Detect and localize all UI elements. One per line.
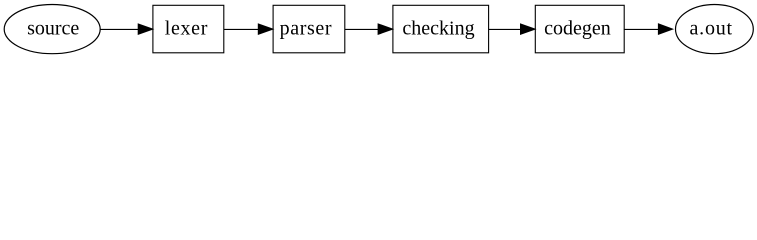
wire codegen->a.out: [624, 28, 659, 30]
svg-text:codegen: codegen: [544, 17, 611, 39]
node checking (box): [393, 5, 489, 53]
wire lexer->parser: [224, 28, 259, 30]
node a.out (ellipse): [676, 5, 754, 54]
node source (ellipse): [4, 5, 100, 54]
arrowhead lexer->parser: [258, 24, 273, 34]
arrowhead codegen->a.out: [658, 24, 672, 34]
wire checking->codegen: [489, 28, 522, 30]
svg-text:checking: checking: [402, 17, 474, 39]
svg-text:a.out: a.out: [689, 17, 732, 39]
svg-text:parser: parser: [280, 17, 332, 39]
svg-text:source: source: [27, 17, 79, 39]
svg-text:lexer: lexer: [165, 17, 208, 39]
node parser (box): [273, 5, 345, 53]
arrowhead source->lexer: [138, 24, 153, 34]
arrowhead checking->codegen: [521, 24, 536, 34]
wire source->lexer: [100, 28, 139, 30]
node lexer (box): [153, 5, 224, 53]
arrowhead parser->checking: [378, 24, 393, 34]
wire parser->checking: [345, 28, 379, 30]
node codegen (box): [535, 5, 624, 53]
